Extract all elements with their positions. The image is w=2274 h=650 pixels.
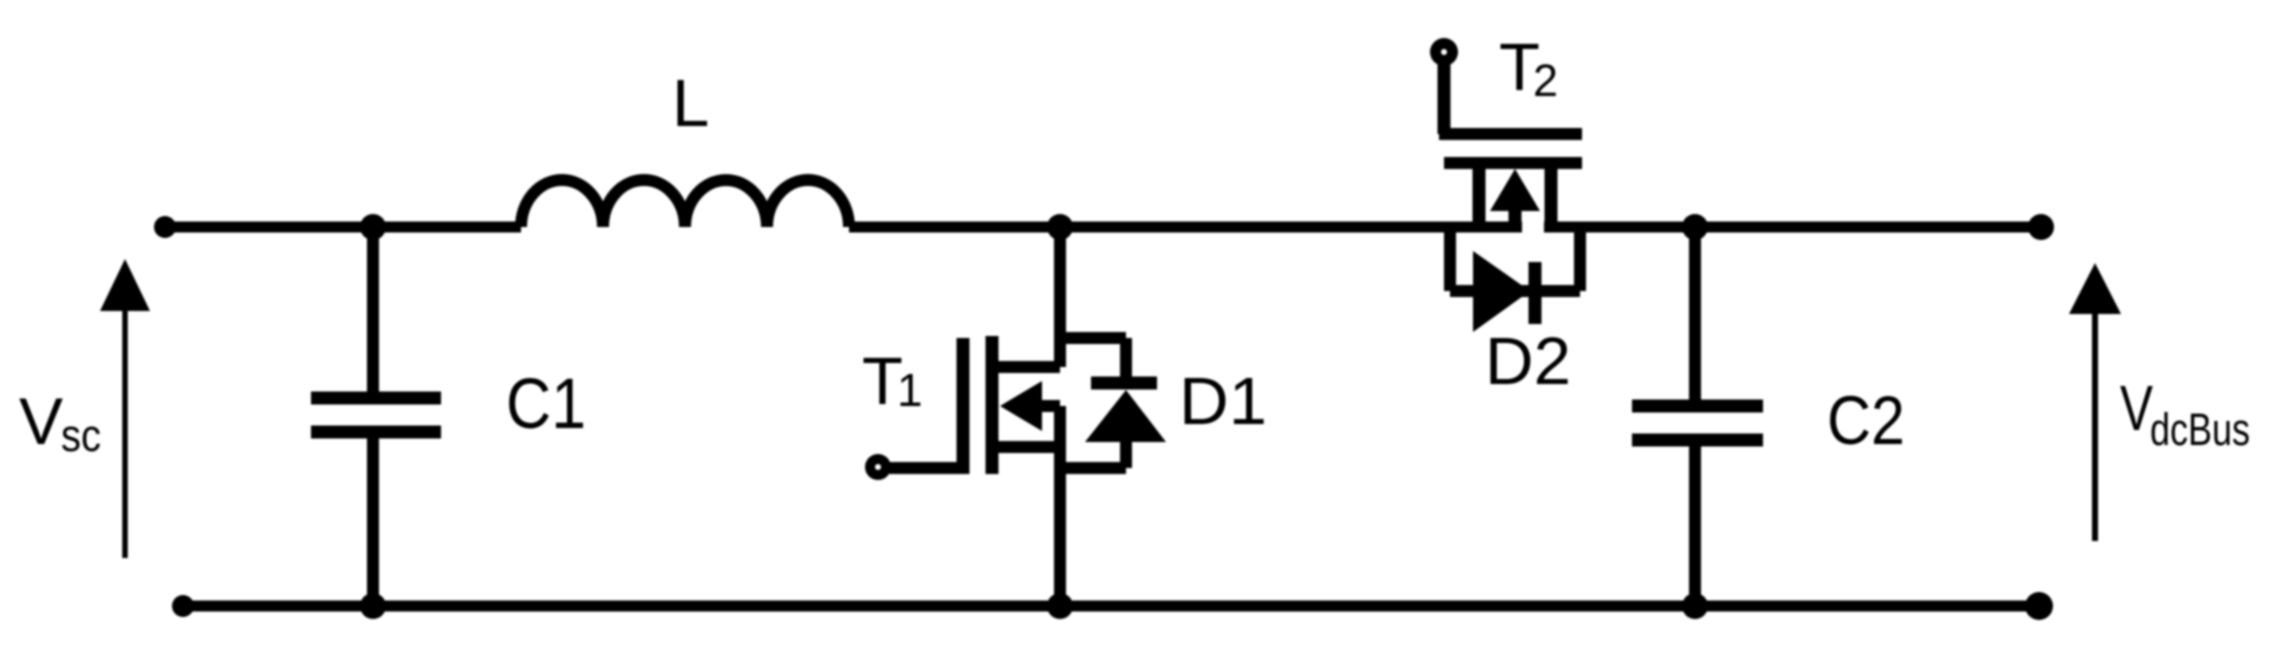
svg-text:V: V bbox=[2120, 372, 2153, 444]
svg-text:D2: D2 bbox=[1485, 324, 1571, 399]
svg-text:D1: D1 bbox=[1179, 364, 1267, 439]
svg-text:C1: C1 bbox=[506, 365, 586, 444]
svg-text:1: 1 bbox=[897, 364, 923, 416]
svg-text:dcBus: dcBus bbox=[2150, 404, 2250, 455]
svg-text:V: V bbox=[19, 384, 63, 458]
svg-text:L: L bbox=[672, 66, 709, 141]
svg-text:2: 2 bbox=[1533, 55, 1558, 106]
svg-text:sc: sc bbox=[61, 410, 101, 461]
svg-text:C2: C2 bbox=[1827, 382, 1905, 459]
